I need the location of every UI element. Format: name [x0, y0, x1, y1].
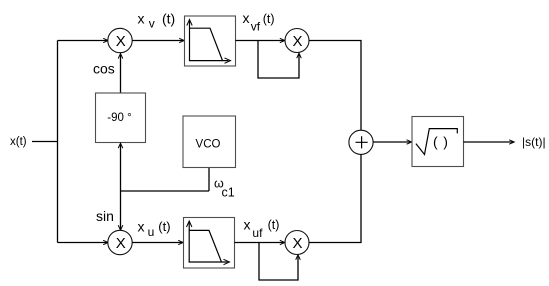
multiplier M2 [108, 230, 132, 254]
wire phase shifter to M1 [118, 54, 123, 93]
wire input bus vertical [57, 41, 59, 243]
svg-text:x: x [138, 219, 145, 235]
node label x_uf(t) [244, 217, 280, 241]
svg-text:v: v [149, 17, 155, 31]
svg-text:|s(t)|: |s(t)| [522, 135, 546, 149]
svg-text:X: X [292, 33, 302, 50]
svg-text:X: X [116, 235, 126, 252]
wire F2 to squarer S2 [235, 240, 285, 244]
node label x_v(t) [138, 11, 176, 31]
svg-text:(t): (t) [268, 218, 280, 232]
squarer S1 [285, 29, 309, 53]
wire S1 to summer [309, 41, 361, 131]
svg-text:cos: cos [93, 61, 115, 77]
lowpass filter F2 block [184, 218, 235, 269]
svg-text:(t): (t) [158, 219, 170, 234]
svg-text:c1: c1 [222, 186, 235, 200]
wire F1 to squarer S1 [236, 38, 285, 42]
wire S2 feedback loop [259, 243, 300, 281]
wire VCO drop [208, 168, 210, 192]
wire S2 to summer [309, 154, 361, 242]
svg-text:x: x [244, 217, 251, 233]
label cos [93, 61, 115, 77]
svg-text:x: x [243, 10, 250, 26]
svg-text:u: u [148, 225, 155, 239]
wire bus to multiplier M1 [58, 38, 109, 42]
svg-text:-90 °: -90 ° [107, 112, 131, 124]
summer SUM [349, 130, 373, 154]
svg-text:sin: sin [96, 208, 114, 224]
net label omega c1 [214, 177, 235, 200]
label sin [96, 208, 114, 224]
sqrt block [412, 117, 464, 167]
wire M2 to lowpass filter F2 [132, 240, 183, 244]
node x(t) input label [10, 136, 27, 148]
wire sqrt to output [464, 140, 515, 144]
wire omega horizontal [121, 190, 210, 192]
svg-text:(: ( [433, 134, 438, 150]
svg-text:vf: vf [251, 20, 261, 34]
svg-text:): ) [443, 134, 448, 150]
squarer S2 [285, 231, 309, 255]
wire omega to multiplier M2 [118, 191, 123, 230]
svg-text:VCO: VCO [196, 139, 221, 151]
lowpass filter F1 block [185, 16, 236, 66]
svg-text:X: X [116, 33, 126, 50]
wire summer to sqrt block [373, 140, 412, 144]
wire bus to multiplier M2 [58, 240, 109, 244]
svg-text:x(t): x(t) [10, 136, 27, 148]
wire omega line to phase shifter [118, 143, 123, 191]
wire S1 feedback loop [258, 41, 301, 79]
svg-text:x: x [138, 11, 145, 27]
node output label |s(t)| [522, 135, 546, 149]
multiplier M1 [108, 28, 132, 52]
phase shifter -90 block [96, 93, 146, 143]
wire M1 to lowpass filter F1 [132, 38, 184, 42]
wire input stub [32, 141, 58, 143]
svg-text:X: X [292, 235, 302, 252]
node label x_vf(t) [243, 10, 275, 34]
svg-text:uf: uf [252, 226, 263, 240]
oscillator VCO block [183, 116, 236, 168]
svg-text:(t): (t) [162, 11, 175, 27]
svg-text:(t): (t) [263, 12, 275, 26]
node label x_u(t) [138, 219, 171, 240]
